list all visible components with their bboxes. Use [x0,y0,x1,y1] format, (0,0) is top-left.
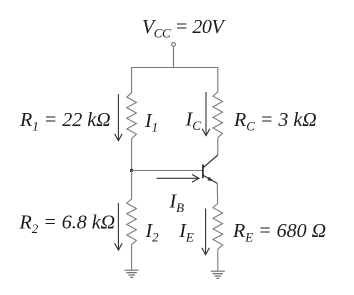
svg-text:VCC = 20V: VCC = 20V [142,16,226,41]
wire R2 to ground [131,245,133,271]
wire base: node B to transistor base [132,170,203,172]
svg-text:IC: IC [185,108,202,133]
resistor RE [213,203,223,249]
wire R1 to node B [131,139,133,171]
svg-text:I1: I1 [144,110,158,135]
ground left [125,270,139,277]
arrow IC current down [202,92,210,136]
arrow I2 current down [115,203,123,250]
wire Vcc terminal to top rail [173,47,175,68]
wire node B to R2 [131,171,133,200]
node Vcc supply terminal [172,43,176,47]
arrow IE current down [202,209,210,255]
wire top rail [132,68,218,94]
wire RC to collector [217,138,219,155]
svg-text:RE = 680 Ω: RE = 680 Ω [232,220,326,245]
svg-text:R2 = 6.8 kΩ: R2 = 6.8 kΩ [19,211,116,236]
resistor RC [213,92,223,138]
resistor R2 [127,199,137,245]
wire emitter to RE [216,183,218,204]
svg-text:R1 = 22 kΩ: R1 = 22 kΩ [19,109,111,134]
node B junction dot [130,169,133,172]
transistor Q1 (NPN) [203,155,218,183]
arrow I1 current down [115,94,123,141]
wire RE to ground [217,249,219,271]
svg-text:I2: I2 [145,220,160,245]
svg-text:IE: IE [178,220,194,245]
svg-text:IB: IB [169,191,185,216]
ground right [211,271,225,278]
resistor R1 [127,93,137,139]
svg-text:RC = 3 kΩ: RC = 3 kΩ [233,109,317,134]
arrow IB current right [157,175,200,183]
